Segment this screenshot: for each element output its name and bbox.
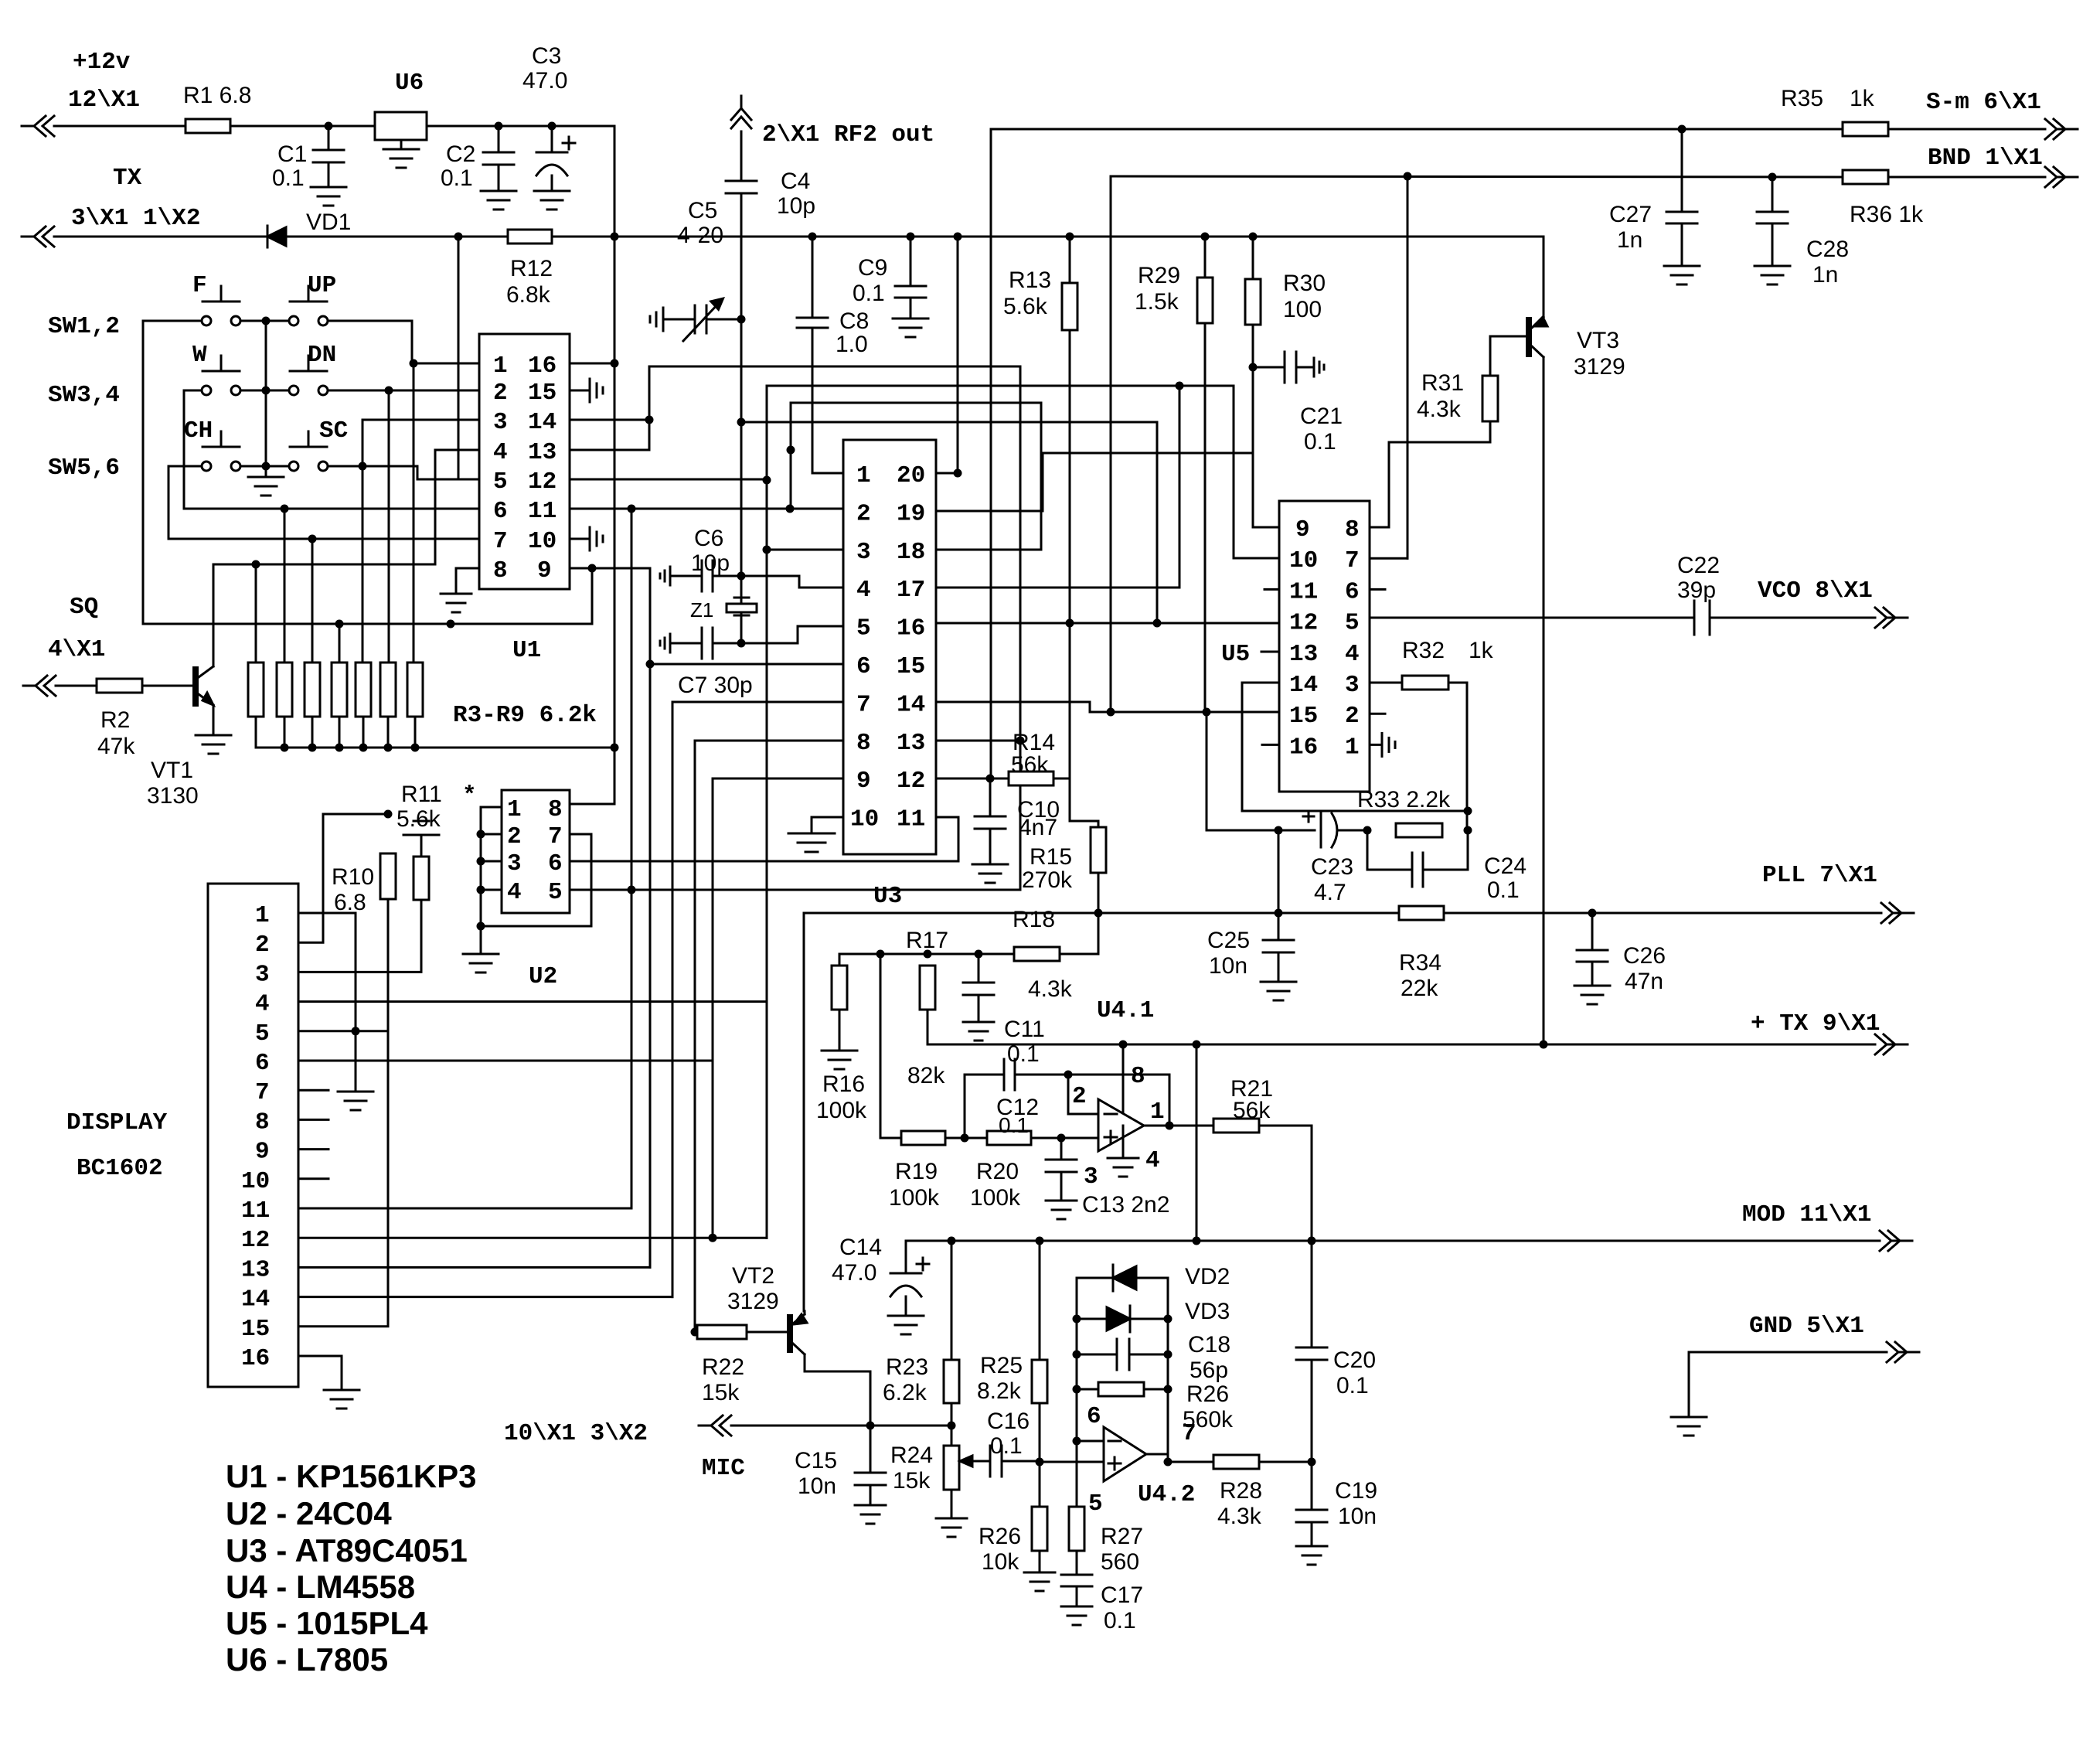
- resistor R27: [1069, 1507, 1143, 1575]
- capacitor C16: [977, 1409, 1040, 1477]
- svg-text:15: 15: [241, 1316, 270, 1343]
- svg-text:SW1,2: SW1,2: [48, 313, 120, 340]
- junction TX-U3pin20: [954, 233, 962, 241]
- wire VD left column: [1073, 1278, 1081, 1441]
- junction R12 left: [454, 233, 463, 241]
- wire R6 top: [362, 466, 364, 663]
- svg-text:R36 1k: R36 1k: [1850, 202, 1924, 227]
- ground U6: [383, 140, 419, 168]
- resistor R24 trimmer: [890, 1443, 977, 1494]
- svg-text:C15: C15: [795, 1448, 837, 1473]
- ground C15: [855, 1505, 886, 1524]
- svg-text:0.1: 0.1: [990, 1433, 1023, 1459]
- resistor R26 10k: [979, 1507, 1047, 1575]
- svg-text:BC1602: BC1602: [77, 1155, 163, 1182]
- capacitor C25: [1207, 913, 1294, 982]
- capacitor C28: [1757, 177, 1849, 288]
- wire switch row2: [184, 390, 389, 392]
- connector 4\X1 arrow: [23, 676, 56, 696]
- resistor R32: [1402, 638, 1494, 690]
- svg-text:C24: C24: [1484, 853, 1526, 879]
- node star label: [462, 782, 477, 809]
- svg-text:VD1: VD1: [306, 210, 351, 235]
- capacitor C9: [853, 237, 926, 319]
- wire U3 pin3 lead: [767, 549, 843, 551]
- svg-text:9: 9: [856, 768, 871, 795]
- resistor R16: [816, 966, 867, 1123]
- wire BND row: [1111, 172, 2045, 181]
- resistor R23: [883, 1354, 959, 1405]
- svg-text:12: 12: [1289, 610, 1318, 637]
- svg-text:2\X1 RF2 out: 2\X1 RF2 out: [762, 121, 934, 148]
- wire R24 leads: [951, 1426, 953, 1518]
- svg-text:U6: U6: [395, 70, 424, 97]
- wire minus input: [1068, 1075, 1098, 1114]
- svg-text:560: 560: [1101, 1549, 1139, 1575]
- junction C1 top: [325, 122, 333, 131]
- ic U2 pin numbers: [507, 796, 563, 906]
- svg-text:R32: R32: [1402, 638, 1445, 663]
- node SW5,6 label: [48, 455, 120, 482]
- svg-text:7: 7: [548, 823, 563, 850]
- wire U3 pin6 lead: [650, 663, 843, 666]
- svg-text:C20: C20: [1333, 1347, 1376, 1373]
- svg-text:12: 12: [241, 1227, 270, 1254]
- svg-text:R31: R31: [1421, 370, 1464, 396]
- ic U2: [502, 790, 570, 990]
- wire U5 pin3 row: [1370, 682, 1402, 684]
- svg-text:12: 12: [528, 468, 556, 496]
- svg-text:F: F: [192, 272, 207, 299]
- wire DISPLAY pin11: [298, 1208, 631, 1210]
- junction C5 node: [737, 315, 746, 324]
- resistor R19: [889, 1131, 945, 1211]
- ic U3: [843, 440, 936, 910]
- capacitor C5 trimmer: [650, 198, 741, 341]
- wire S-m column: [990, 129, 992, 778]
- wire DISPLAY pin5: [298, 1027, 388, 1035]
- svg-text:9: 9: [255, 1139, 270, 1166]
- svg-text:MIC: MIC: [702, 1455, 745, 1482]
- wire U1 pin3: [359, 420, 480, 471]
- svg-text:C18: C18: [1188, 1332, 1230, 1358]
- wire R7 top: [339, 624, 341, 663]
- resistor R36: [1843, 170, 1924, 227]
- wire RF2 column: [740, 131, 743, 643]
- svg-text:R23: R23: [886, 1354, 928, 1380]
- capacitor C17: [1061, 1575, 1143, 1633]
- wire DISPLAY pin15: [298, 1325, 388, 1327]
- svg-text:C9: C9: [858, 255, 887, 281]
- svg-text:MOD 11\X1: MOD 11\X1: [1742, 1201, 1871, 1228]
- wire crystal to pin4: [741, 576, 843, 588]
- wire x1320 column: [1016, 366, 1025, 890]
- ground C17: [1061, 1606, 1092, 1625]
- wire U1 pin11: [570, 505, 843, 513]
- connector S-m arrow: [1926, 89, 2078, 139]
- capacitor C15: [795, 1426, 886, 1505]
- capacitor C12: [965, 1059, 1068, 1138]
- connector MIC arrow: [699, 1415, 745, 1482]
- svg-text:10k: 10k: [982, 1549, 1019, 1575]
- svg-text:R27: R27: [1101, 1524, 1143, 1549]
- svg-text:12\X1: 12\X1: [68, 87, 140, 114]
- svg-text:7: 7: [856, 691, 871, 718]
- resistor R22: [697, 1325, 747, 1405]
- wire DISPLAY pin16: [298, 1356, 342, 1390]
- svg-text:11: 11: [241, 1197, 270, 1225]
- wire R32 right: [1448, 683, 1467, 830]
- ground R16: [822, 1010, 857, 1069]
- wire DISPLAY pin12: [298, 1234, 767, 1242]
- svg-text:100k: 100k: [970, 1185, 1021, 1211]
- capacitor C22: [1677, 553, 1720, 635]
- connector +TX arrow: [1544, 1010, 1908, 1054]
- svg-text:10p: 10p: [777, 193, 815, 219]
- svg-text:3130: 3130: [147, 783, 199, 809]
- svg-text:15k: 15k: [893, 1468, 931, 1494]
- svg-text:SC: SC: [319, 417, 348, 445]
- wire DISPLAY pin1: [298, 913, 356, 1092]
- svg-text:20: 20: [897, 462, 925, 489]
- junction C12 right: [1064, 1071, 1073, 1079]
- capacitor C10: [975, 778, 1060, 864]
- svg-text:R19: R19: [895, 1159, 938, 1184]
- svg-text:U2: U2: [529, 963, 557, 990]
- ground C26: [1574, 986, 1610, 1004]
- svg-text:1n: 1n: [1812, 262, 1838, 288]
- svg-text:C3: C3: [532, 43, 561, 69]
- transistor VT3: [1526, 311, 1625, 380]
- svg-text:7: 7: [493, 528, 508, 555]
- junction C21: [1249, 363, 1258, 372]
- svg-text:+ TX 9\X1: + TX 9\X1: [1751, 1010, 1880, 1037]
- node SQ label: [48, 594, 105, 663]
- svg-text:3: 3: [255, 961, 270, 988]
- svg-text:10\X1 3\X2: 10\X1 3\X2: [504, 1420, 648, 1447]
- svg-text:C11: C11: [1004, 1017, 1045, 1042]
- switch W: [192, 342, 240, 395]
- svg-text:0.1: 0.1: [272, 165, 305, 191]
- svg-text:4-20: 4-20: [677, 223, 723, 248]
- svg-text:22k: 22k: [1401, 976, 1438, 1001]
- svg-text:7: 7: [255, 1079, 270, 1106]
- connector VCO arrow: [1758, 577, 1908, 628]
- svg-text:R25: R25: [980, 1353, 1023, 1378]
- svg-text:47k: 47k: [97, 734, 135, 759]
- resistor R34: [1399, 906, 1444, 1001]
- svg-text:C13 2n2: C13 2n2: [1082, 1192, 1169, 1218]
- connector DISPLAY box: [66, 884, 298, 1387]
- svg-text:15: 15: [897, 653, 925, 680]
- wire U5 pin7 lead: [1370, 176, 1407, 558]
- svg-text:1n: 1n: [1617, 227, 1642, 253]
- wire U5 pin8 lead: [1370, 526, 1389, 529]
- ground U1 pin15: [570, 379, 603, 402]
- svg-text:R30: R30: [1283, 271, 1326, 296]
- wire U1 pin12: [570, 476, 771, 485]
- svg-text:16: 16: [897, 615, 925, 642]
- switch DN: [289, 342, 336, 395]
- ground U2: [463, 954, 499, 973]
- svg-text:3129: 3129: [1574, 354, 1625, 380]
- capacitor C2: [441, 126, 514, 191]
- svg-text:VD2: VD2: [1185, 1264, 1230, 1289]
- svg-text:10n: 10n: [798, 1473, 836, 1499]
- junction C28: [1768, 173, 1777, 182]
- junction VT3-TX: [1540, 1041, 1548, 1049]
- svg-text:82k: 82k: [907, 1063, 945, 1088]
- svg-text:100: 100: [1283, 297, 1322, 322]
- svg-text:4n7: 4n7: [1019, 815, 1057, 840]
- svg-text:R17: R17: [906, 928, 948, 953]
- svg-text:10n: 10n: [1338, 1504, 1377, 1529]
- wire MOD bus: [906, 1237, 1880, 1274]
- capacitor C13: [1046, 1138, 1169, 1218]
- svg-text:13: 13: [897, 730, 925, 757]
- wire keyboard common: [262, 317, 271, 478]
- junction C7 node: [737, 639, 746, 648]
- wire R18 row: [839, 950, 1014, 966]
- svg-text:U2 - 24C04: U2 - 24C04: [226, 1495, 392, 1531]
- capacitor C24: [1367, 830, 1526, 903]
- svg-text:4: 4: [856, 577, 871, 604]
- wire R31 bottom: [1370, 421, 1490, 527]
- svg-text:C25: C25: [1207, 928, 1250, 953]
- capacitor C8: [797, 237, 869, 357]
- svg-text:3129: 3129: [727, 1289, 779, 1314]
- svg-text:0.1: 0.1: [1104, 1608, 1136, 1633]
- wire R12 left drop: [458, 237, 479, 479]
- svg-text:C21: C21: [1300, 404, 1343, 429]
- svg-text:10: 10: [1289, 547, 1318, 574]
- svg-text:SW5,6: SW5,6: [48, 455, 120, 482]
- svg-text:2: 2: [1345, 703, 1360, 730]
- ground GND net: [1671, 1417, 1707, 1436]
- connector BND arrow: [1928, 145, 2078, 187]
- wire U2 pin5 row: [570, 886, 1020, 894]
- svg-text:SQ: SQ: [70, 594, 98, 621]
- svg-text:3: 3: [493, 409, 508, 436]
- svg-text:2: 2: [507, 823, 522, 850]
- switch CH: [184, 417, 240, 471]
- svg-text:11: 11: [1289, 578, 1318, 605]
- svg-text:R12: R12: [510, 256, 553, 281]
- resistor R17: [906, 928, 948, 1088]
- wire U3 pin12 lead: [936, 775, 1009, 783]
- svg-text:0.1: 0.1: [441, 165, 473, 191]
- svg-text:3: 3: [856, 539, 871, 566]
- junction TX-R13: [1066, 233, 1074, 241]
- capacitor C23: [1278, 811, 1367, 905]
- svg-text:10p: 10p: [691, 550, 730, 576]
- svg-text:0.1: 0.1: [1304, 429, 1336, 455]
- junction R19-R20: [961, 1134, 969, 1143]
- svg-text:12: 12: [897, 768, 925, 795]
- svg-text:100k: 100k: [889, 1185, 940, 1211]
- connector DISPLAY pin numbers: [241, 902, 270, 1372]
- wire C23 node to PLL: [1275, 830, 1283, 918]
- capacitor C14: [832, 1235, 929, 1316]
- wire minus input U4.2: [1077, 1440, 1104, 1443]
- wire U4.1 pin8: [1122, 1044, 1125, 1113]
- wire DISPLAY pin7 stub: [298, 1089, 328, 1092]
- svg-text:47.0: 47.0: [832, 1260, 876, 1286]
- svg-text:2: 2: [493, 380, 508, 407]
- svg-text:C16: C16: [987, 1409, 1030, 1434]
- wire R30 leads: [1253, 237, 1279, 527]
- ic U3 pin numbers: [850, 462, 925, 833]
- svg-text:6: 6: [548, 850, 563, 877]
- svg-text:W: W: [192, 342, 207, 369]
- wire x992 column: [763, 387, 771, 1238]
- svg-text:47.0: 47.0: [522, 68, 567, 94]
- svg-text:15: 15: [1289, 703, 1318, 730]
- wire R11 bottom: [420, 900, 423, 972]
- ground DISPLAY pin5: [338, 1092, 373, 1110]
- svg-text:14: 14: [528, 409, 556, 436]
- wire crystal to pin5: [741, 626, 843, 643]
- svg-text:18: 18: [897, 539, 925, 566]
- junction C2 top: [495, 122, 503, 131]
- svg-text:6.8k: 6.8k: [506, 282, 551, 308]
- wire U3 pin8 lead: [695, 740, 843, 742]
- wire U3 pin18 lead: [936, 403, 1041, 550]
- capacitor C6: [660, 526, 741, 591]
- svg-text:11: 11: [897, 806, 925, 833]
- wire U5 pin5 VCO row: [1370, 617, 1875, 619]
- wire R25 leads: [1036, 1241, 1044, 1467]
- svg-text:S-m 6\X1: S-m 6\X1: [1926, 89, 2041, 116]
- svg-text:R35: R35: [1781, 86, 1823, 111]
- svg-text:VCO 8\X1: VCO 8\X1: [1758, 577, 1873, 605]
- svg-text:C1: C1: [277, 141, 307, 167]
- wire U5 pin14 loop: [1242, 683, 1472, 816]
- svg-text:R13: R13: [1009, 267, 1051, 293]
- capacitor C11: [963, 954, 1045, 1067]
- wire pin6 row: [184, 390, 479, 509]
- wire TX rail: [54, 237, 1544, 311]
- svg-text:2: 2: [856, 500, 871, 527]
- junction TX-C9: [907, 233, 915, 241]
- svg-text:C22: C22: [1677, 553, 1720, 578]
- connector PLL arrow: [1762, 862, 1914, 923]
- ground U5 pin1: [1370, 733, 1395, 756]
- wire +12v rail: [54, 126, 614, 237]
- svg-text:U4.2: U4.2: [1138, 1481, 1195, 1508]
- svg-text:5: 5: [856, 615, 871, 642]
- node TX label: [71, 165, 200, 232]
- wire U2 pin7 ground loop: [481, 834, 591, 926]
- capacitor C4: [726, 169, 815, 219]
- svg-text:6.8: 6.8: [334, 890, 366, 915]
- svg-text:R10: R10: [332, 864, 374, 890]
- wire R22 to base: [747, 1331, 787, 1334]
- svg-text:R16: R16: [822, 1071, 865, 1097]
- wire PLL row: [804, 909, 1881, 918]
- wire R10 bottom: [387, 899, 390, 1325]
- wire R3-R9 bottom bus: [256, 717, 619, 752]
- resistor R13: [1003, 267, 1077, 330]
- wire U2 left bus: [477, 807, 502, 954]
- svg-text:6: 6: [493, 498, 508, 525]
- ground C10: [972, 864, 1008, 883]
- ground U3 pin10: [788, 817, 843, 852]
- wire R4 top: [281, 505, 289, 663]
- resistor R25: [977, 1353, 1047, 1404]
- svg-text:5.6k: 5.6k: [397, 806, 441, 832]
- svg-text:1: 1: [255, 902, 270, 929]
- junction C27: [1678, 125, 1686, 134]
- wire R3 top: [255, 564, 257, 663]
- wire +input riser: [880, 954, 901, 1138]
- resistor pack R3-R9: [248, 663, 597, 729]
- svg-text:5: 5: [1345, 610, 1360, 637]
- wire VT2 collector: [805, 1371, 870, 1426]
- svg-text:R33 2.2k: R33 2.2k: [1357, 787, 1451, 812]
- wire R15 bottom: [1098, 873, 1100, 913]
- svg-text:6: 6: [1087, 1403, 1101, 1430]
- svg-text:R34: R34: [1399, 950, 1441, 976]
- svg-text:3: 3: [1345, 672, 1360, 699]
- ground U1 pin10: [570, 527, 603, 550]
- ground C13: [1046, 1201, 1077, 1219]
- wire U2 pin6 row: [570, 817, 958, 861]
- wire U1 pin9: [570, 564, 655, 669]
- op-amp U4.1: [1072, 997, 1165, 1191]
- connector 2\X1 arrow up: [731, 96, 751, 128]
- wire DISPLAY pin4: [298, 1000, 767, 1003]
- wire U1 pin16: [570, 359, 619, 368]
- wire S-m row: [991, 128, 2045, 131]
- resistor R21: [1213, 1076, 1273, 1133]
- wire DISPLAY pin10 stub: [298, 1177, 328, 1180]
- junction R12 right: [611, 233, 619, 241]
- svg-text:R18: R18: [1013, 907, 1055, 932]
- capacitor C7: [660, 628, 753, 698]
- wire 499 row: [767, 382, 1279, 559]
- svg-text:VT1: VT1: [151, 758, 193, 783]
- svg-text:560k: 560k: [1183, 1407, 1234, 1432]
- node SW3,4 label: [48, 382, 120, 409]
- svg-text:VT2: VT2: [732, 1263, 774, 1289]
- svg-text:8: 8: [493, 557, 508, 584]
- wire U5 pin16 stub: [1262, 744, 1279, 746]
- resistor R2: [97, 679, 142, 759]
- node RF2 label: [762, 121, 934, 148]
- svg-text:U3: U3: [873, 883, 902, 910]
- svg-text:1: 1: [1150, 1099, 1165, 1126]
- wire R27 leads: [1076, 1441, 1078, 1575]
- wire U3 pin13 row: [936, 740, 1020, 742]
- wire TX drop to U2: [570, 237, 614, 804]
- wire R29 leads: [1204, 237, 1207, 712]
- ground VT1: [196, 735, 231, 754]
- ground C27: [1664, 266, 1700, 284]
- ground R26: [1024, 1572, 1055, 1591]
- svg-text:7: 7: [1345, 547, 1360, 574]
- svg-text:C6: C6: [694, 526, 723, 551]
- ground C2: [481, 191, 516, 210]
- wire supply row: [927, 1010, 1544, 1049]
- connector GND arrow: [1689, 1313, 1919, 1417]
- svg-text:16: 16: [241, 1345, 270, 1372]
- svg-text:1.0: 1.0: [836, 332, 868, 357]
- wire x817 column: [631, 509, 633, 1208]
- wire x899 column: [691, 741, 699, 1337]
- wire VT3 collector: [1543, 360, 1545, 1044]
- resistor R15: [1022, 827, 1106, 893]
